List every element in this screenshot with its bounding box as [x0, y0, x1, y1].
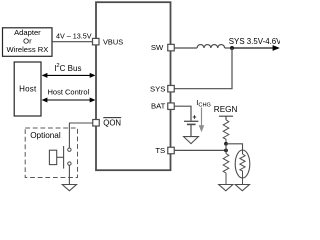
- svg-text:SYS 3.5V-4.6V: SYS 3.5V-4.6V: [229, 37, 280, 46]
- wire switch to ground: [68, 165, 70, 184]
- optional dashed box: [25, 128, 77, 178]
- resistor R2 lower: [223, 154, 229, 186]
- pin BAT: [168, 103, 175, 110]
- adapter input block: [3, 28, 53, 57]
- pin QON: [93, 120, 100, 127]
- inductor L1: [197, 45, 225, 48]
- SYS output arrow: [232, 45, 280, 51]
- wire SW pin to inductor: [174, 47, 197, 49]
- svg-text:TS: TS: [155, 146, 165, 155]
- ground (R2): [219, 185, 233, 191]
- pin SW: [168, 44, 175, 51]
- wire inductor to junction: [225, 47, 233, 49]
- node TS branch: [224, 149, 228, 153]
- svg-text:Host Control: Host Control: [48, 87, 90, 96]
- wire between nodes: [225, 144, 227, 154]
- svg-text:Host: Host: [19, 85, 37, 94]
- ground (thermistor): [235, 185, 249, 191]
- label QON with overline: [103, 118, 121, 128]
- pin SYS: [168, 85, 175, 92]
- svg-text:SW: SW: [151, 43, 164, 52]
- wire node to thermistor: [226, 144, 243, 154]
- svg-text:Wireless RX: Wireless RX: [7, 45, 49, 54]
- svg-text:I2C Bus: I2C Bus: [54, 63, 81, 73]
- svg-text:SYS: SYS: [150, 85, 165, 94]
- pin TS: [168, 147, 175, 154]
- node thermistor branch: [224, 142, 228, 146]
- svg-text:VBUS: VBUS: [103, 38, 123, 47]
- svg-text:4V – 13.5V: 4V – 13.5V: [56, 32, 92, 41]
- wire QON pin to switch: [69, 123, 92, 148]
- wire adapter to VBUS pin: [52, 41, 93, 43]
- pin VBUS: [93, 38, 100, 45]
- svg-text:REGN: REGN: [214, 105, 238, 114]
- svg-text:Optional: Optional: [30, 131, 61, 140]
- REGN rail: [219, 116, 233, 120]
- wire TS pin to divider node: [174, 149, 226, 151]
- svg-text:BAT: BAT: [151, 102, 166, 111]
- I2C bus arrow (double headed): [42, 73, 96, 78]
- wire BAT pin to battery: [174, 106, 191, 121]
- node SYS junction: [230, 46, 234, 50]
- host block: [14, 62, 41, 116]
- IC U1 charger block: [96, 2, 171, 170]
- ground (battery): [184, 137, 199, 144]
- resistor R1 upper: [223, 120, 229, 144]
- battery BT1: [184, 115, 198, 136]
- ICHG current arrow: [199, 108, 205, 133]
- push-button switch S1: [49, 146, 71, 169]
- ground (switch): [62, 185, 76, 191]
- svg-text:QON: QON: [103, 118, 121, 127]
- thermistor RT1: [235, 150, 250, 185]
- wire SYS rail down to SYS pin: [174, 48, 232, 89]
- host control arrow (double headed): [42, 98, 96, 103]
- svg-text:ICHG: ICHG: [196, 98, 211, 109]
